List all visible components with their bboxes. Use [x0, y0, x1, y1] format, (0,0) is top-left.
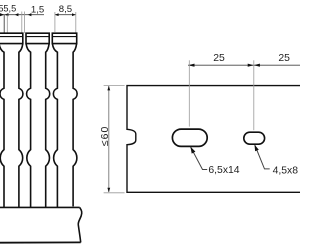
arrow <=60 top: [107, 86, 110, 91]
arrow <=60 bottom: [107, 188, 110, 193]
arrow bowtie mid: [248, 64, 260, 67]
arrow 25 left: [188, 64, 195, 67]
leader slot2: [255, 145, 270, 169]
bar1 cap: [0, 33, 23, 43]
leader arrow slot1: [190, 147, 195, 154]
plate outline with notch: [127, 86, 301, 193]
bar1 left edge: [0, 44, 4, 208]
base break edge: [78, 207, 82, 242]
witness tick bottom: [104, 192, 125, 194]
extension line x7.3: [6, 15, 8, 34]
dim <=60 vertical line: [108, 86, 110, 192]
extension line x54.9: [54, 12, 56, 32]
witness tick top: [104, 85, 125, 87]
bar3 left edge: [52, 44, 57, 208]
slot 4,5x8: [244, 132, 265, 144]
dim 25/25 line: [188, 64, 300, 66]
bar3 right edge: [73, 44, 77, 207]
extension line x21.8: [21, 12, 23, 34]
svg-text:25: 25: [278, 53, 290, 64]
base plate top line: [0, 206, 80, 208]
base bottom line: [0, 241, 81, 243]
bar3 cap inner line: [52, 36, 76, 38]
svg-text:8,5: 8,5: [59, 4, 72, 15]
leader arrow slot2: [255, 145, 259, 152]
dimension 8,5: [55, 14, 76, 16]
arrow 8,5 right: [72, 13, 76, 16]
bar2 right edge: [46, 44, 50, 208]
arrow bowtie a2: [5, 13, 9, 16]
ext line slot1: [188, 60, 190, 126]
arrow a1: [0, 13, 4, 16]
svg-text:25: 25: [213, 53, 225, 64]
slot 6,5x14: [172, 129, 207, 146]
svg-text:6,5x14: 6,5x14: [208, 165, 239, 176]
bar3 cap: [52, 33, 76, 43]
ext line slot2: [253, 60, 255, 130]
bar2 cap inner line: [26, 36, 49, 38]
bar2 left edge: [26, 44, 31, 208]
extension line x24.6: [24, 12, 26, 34]
svg-text:1,5: 1,5: [31, 5, 44, 16]
extension line x4.2: [3, 15, 5, 34]
svg-text:55,5: 55,5: [0, 4, 16, 14]
arrow a4 (1,5 right outside): [28, 13, 32, 16]
bar1 cap inner line: [0, 36, 23, 38]
arrow 8,5 left: [55, 13, 59, 16]
dimension line top-left: [0, 14, 44, 16]
svg-text:4,5x8: 4,5x8: [273, 165, 299, 176]
svg-text:≤60: ≤60: [99, 126, 111, 147]
bar1 right edge: [19, 44, 23, 208]
arrow a3: [15, 13, 19, 16]
leader slot1: [191, 147, 208, 170]
extension line x75.8: [75, 12, 77, 33]
bar2 cap: [26, 33, 49, 43]
